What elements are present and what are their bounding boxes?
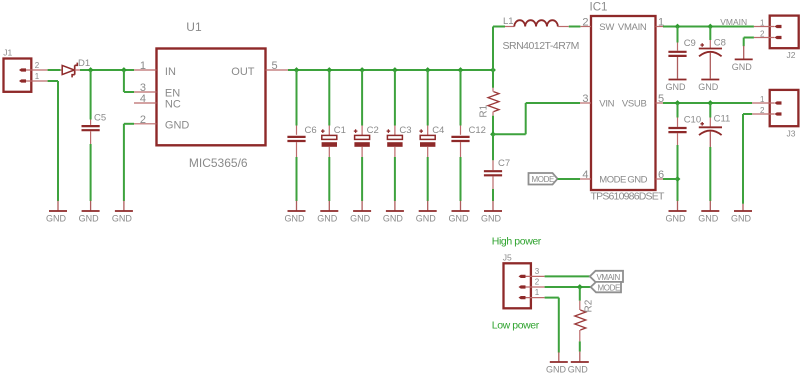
svg-text:D1: D1 [78, 58, 90, 69]
IC1 pin 1 VMAIN [618, 22, 663, 33]
U1 pin number 4 [140, 93, 146, 105]
ground [666, 201, 687, 224]
svg-text:Low power: Low power [492, 320, 540, 332]
svg-text:J1: J1 [3, 47, 12, 57]
IC1 pin number 4 [582, 169, 588, 181]
svg-text:J3: J3 [787, 129, 796, 139]
capacitor C4 [419, 125, 444, 157]
svg-text:VSUB: VSUB [622, 99, 647, 110]
svg-text:U1: U1 [186, 20, 202, 34]
wire [361, 157, 363, 201]
svg-text:4: 4 [140, 93, 146, 105]
svg-text:GND: GND [46, 214, 67, 224]
wire [492, 70, 494, 88]
svg-text:IC1: IC1 [590, 2, 608, 14]
svg-text:3: 3 [535, 267, 540, 276]
svg-text:R1: R1 [479, 104, 490, 117]
wire [296, 70, 298, 126]
resistor R2 [575, 299, 595, 341]
ground label [546, 365, 567, 375]
svg-text:2: 2 [35, 61, 40, 70]
wire [328, 70, 330, 126]
wire [709, 147, 711, 201]
ground [79, 201, 100, 224]
U1 pin 3 EN [134, 88, 180, 100]
capacitor C3 [387, 125, 412, 157]
ground [46, 201, 67, 224]
svg-text:2: 2 [140, 114, 146, 126]
J1 pin number 1 [35, 72, 40, 81]
capacitor C2 [354, 125, 379, 157]
svg-text:GND: GND [666, 214, 687, 224]
wire [394, 157, 396, 201]
svg-text:GND: GND [546, 365, 567, 375]
node junction [675, 100, 681, 106]
svg-text:VMAIN: VMAIN [720, 17, 747, 27]
node VIN junction [88, 67, 94, 73]
svg-text:GND: GND [350, 214, 371, 224]
svg-text:GND: GND [449, 214, 470, 224]
svg-text:NC: NC [165, 99, 181, 111]
node junction [490, 67, 496, 73]
IC1 pin 6 GND [627, 175, 663, 186]
svg-text:GND: GND [731, 214, 752, 224]
wire [677, 103, 679, 118]
ground [732, 46, 753, 72]
svg-text:TPS610986DSET: TPS610986DSET [591, 191, 665, 203]
svg-text:GND: GND [285, 214, 306, 224]
node junction [675, 176, 681, 182]
svg-text:1: 1 [760, 95, 765, 104]
J3 pin number 2 [760, 106, 765, 115]
svg-text:J5: J5 [503, 253, 512, 263]
svg-text:GND: GND [698, 82, 719, 92]
ground [550, 352, 568, 362]
svg-text:2: 2 [535, 277, 540, 286]
IC1 pin number 5 [658, 93, 664, 105]
svg-text:GND: GND [698, 214, 719, 224]
wire [545, 286, 591, 288]
op-amp U1 MIC5365/6 box [157, 20, 266, 170]
ground [112, 201, 133, 224]
svg-text:1: 1 [535, 288, 540, 297]
connector J3 [752, 90, 798, 139]
wire [663, 178, 678, 180]
ground [568, 352, 589, 375]
op-amp IC1 TPS610986DSET box [590, 2, 665, 203]
svg-text:GND: GND [317, 214, 338, 224]
wire [80, 69, 134, 71]
node junction [490, 131, 496, 137]
svg-text:GND: GND [79, 214, 100, 224]
wire [90, 144, 92, 201]
wire [569, 26, 581, 28]
svg-text:GND: GND [666, 82, 687, 92]
wire [492, 116, 494, 135]
L1 value label [503, 40, 579, 52]
svg-text:C2: C2 [367, 125, 379, 136]
capacitor C12 [451, 125, 486, 157]
svg-text:SRN4012T-4R7M: SRN4012T-4R7M [503, 40, 579, 52]
node EN junction [121, 67, 127, 73]
wire [328, 157, 330, 201]
svg-text:C11: C11 [714, 114, 731, 125]
J3 pin number 1 [760, 95, 765, 104]
wire [545, 298, 559, 353]
wire [90, 70, 92, 120]
svg-text:C12: C12 [469, 125, 486, 136]
IC1 pin number 6 [658, 169, 664, 181]
svg-text:C8: C8 [714, 38, 726, 49]
wire [579, 341, 581, 351]
J2 pin number 2 [760, 29, 765, 38]
ground [416, 201, 437, 224]
node junction [392, 67, 398, 73]
net flag VMAIN [590, 271, 623, 282]
IC1 pin number 1 [658, 16, 664, 28]
ground [666, 80, 687, 93]
U1 pin 5 OUT [231, 66, 288, 78]
svg-text:J2: J2 [787, 50, 796, 60]
connector J5 [503, 253, 545, 309]
IC1 pin number 3 [582, 93, 588, 105]
U1 pin number 5 [272, 60, 278, 72]
svg-text:C10: C10 [684, 115, 701, 126]
svg-text:2: 2 [760, 29, 765, 38]
J5 pin number 3 [535, 267, 540, 276]
wire [361, 70, 363, 126]
svg-text:OUT: OUT [231, 66, 255, 78]
U1 pin number 3 [140, 82, 146, 94]
wire [427, 70, 429, 126]
connector J1 [3, 47, 47, 92]
node junction [707, 24, 713, 30]
diode D1 [61, 58, 91, 77]
wire [124, 70, 134, 92]
wire [492, 189, 494, 201]
svg-text:GND: GND [112, 214, 133, 224]
wire [709, 103, 711, 118]
svg-text:2: 2 [582, 16, 588, 28]
svg-text:GND: GND [383, 214, 404, 224]
net flag MODE [529, 173, 558, 185]
wire [492, 134, 494, 160]
IC1 pin 5 VSUB [622, 99, 663, 110]
ground [698, 80, 719, 93]
svg-text:GND: GND [732, 62, 753, 72]
svg-text:MIC5365/6: MIC5365/6 [189, 156, 248, 170]
svg-text:C6: C6 [305, 125, 317, 136]
svg-text:C1: C1 [334, 125, 346, 136]
capacitor C1 [321, 125, 346, 157]
capacitor C9 [668, 38, 695, 79]
svg-text:C5: C5 [94, 113, 106, 124]
wire [677, 27, 679, 43]
IC1 pin 3 VIN [580, 99, 615, 110]
node junction [425, 67, 431, 73]
svg-text:1: 1 [35, 72, 40, 81]
wire [677, 145, 679, 201]
wire [394, 70, 396, 126]
svg-text:1: 1 [760, 18, 765, 27]
svg-text:4: 4 [582, 169, 588, 181]
svg-text:5: 5 [272, 60, 278, 72]
IC1 pin 2 SW [580, 22, 614, 33]
wire [296, 157, 298, 201]
J5 pin number 2 [535, 277, 540, 286]
node junction [577, 284, 583, 290]
net label VMAIN [720, 17, 747, 27]
node junction [675, 24, 681, 30]
ground [698, 201, 719, 224]
svg-text:VIN: VIN [599, 99, 614, 110]
U1 pin number 2 [140, 114, 146, 126]
wire [124, 124, 134, 201]
capacitor C10 [668, 115, 701, 146]
wire [744, 38, 754, 47]
capacitor C6 [287, 125, 316, 157]
wire [460, 157, 462, 201]
svg-text:R2: R2 [584, 299, 595, 312]
node junction [458, 67, 464, 73]
svg-text:3: 3 [582, 93, 588, 105]
node junction [707, 100, 713, 106]
svg-text:IN: IN [165, 66, 176, 78]
svg-text:GND: GND [416, 214, 437, 224]
inductor L1 [503, 16, 569, 27]
IC1 pin 4 MODE [580, 175, 626, 186]
capacitor C7 [484, 158, 510, 189]
svg-text:C4: C4 [432, 125, 444, 136]
resistor R1 [479, 88, 500, 118]
wire [663, 26, 754, 28]
svg-text:MODE: MODE [532, 175, 554, 184]
ground [449, 201, 470, 224]
svg-text:GND: GND [568, 365, 589, 375]
ground [285, 201, 306, 224]
svg-text:GND: GND [481, 214, 502, 224]
wire [48, 81, 58, 201]
ground [383, 201, 404, 224]
capacitor C8 [699, 38, 726, 79]
wire [288, 69, 493, 71]
wire [709, 27, 711, 41]
svg-text:VMAIN: VMAIN [597, 273, 621, 282]
ground [350, 201, 371, 224]
svg-text:VMAIN: VMAIN [618, 22, 647, 33]
capacitor C11 [699, 114, 731, 148]
J2 pin number 1 [760, 18, 765, 27]
svg-text:MODE: MODE [599, 175, 626, 186]
connector J2 [754, 16, 799, 60]
U1 pin 2 GND [134, 120, 189, 132]
svg-text:C7: C7 [498, 158, 510, 169]
wire [743, 114, 752, 204]
label Low power [492, 320, 540, 332]
wire [493, 27, 505, 71]
wire [579, 287, 581, 301]
wire [48, 69, 61, 71]
svg-text:C3: C3 [399, 125, 411, 136]
wire [460, 70, 462, 126]
svg-text:GND: GND [165, 120, 190, 132]
node junction [294, 67, 300, 73]
U1 pin number 1 [140, 60, 146, 72]
wire [558, 178, 581, 180]
svg-text:GND: GND [627, 175, 647, 186]
IC1 pin number 2 [582, 16, 588, 28]
capacitor C5 [82, 113, 107, 144]
J1 pin number 2 [35, 61, 40, 70]
wire [545, 275, 590, 277]
ground [731, 204, 752, 224]
svg-text:2: 2 [760, 106, 765, 115]
node junction [359, 67, 365, 73]
U1 pin 4 NC [134, 99, 181, 111]
node junction [326, 67, 332, 73]
svg-text:MODE: MODE [598, 283, 620, 292]
svg-text:C9: C9 [684, 38, 696, 49]
svg-text:L1: L1 [503, 16, 514, 27]
svg-text:1: 1 [140, 60, 146, 72]
svg-text:SW: SW [599, 22, 614, 33]
wire [663, 102, 752, 104]
wire [427, 157, 429, 201]
label High power [492, 235, 542, 247]
svg-text:High power: High power [492, 235, 542, 247]
J5 pin number 1 [535, 288, 540, 297]
ground [317, 201, 338, 224]
U1 pin 1 IN [134, 66, 176, 78]
wire [493, 103, 580, 134]
net flag MODE [591, 282, 621, 293]
ground [481, 201, 502, 224]
